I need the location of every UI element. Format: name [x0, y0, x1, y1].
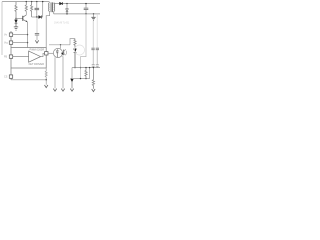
pin box 5: [45, 52, 48, 55]
resistor R4: [74, 39, 76, 49]
wire drop to opto: [60, 45, 62, 49]
resistor R6: [92, 68, 94, 89]
capacitor C2: [85, 4, 87, 8]
wire driver out: [41, 53, 45, 56]
node: [46, 79, 47, 80]
resistor R2: [25, 2, 27, 12]
wire collector up: [25, 11, 27, 15]
wire corner to R4: [70, 39, 75, 45]
capacitor C5: [36, 17, 38, 33]
node: [85, 67, 86, 68]
wire primary top: [48, 2, 50, 3]
wire emitter drop: [27, 22, 29, 48]
transistor Q2 opto: [63, 50, 65, 56]
ground: [70, 89, 73, 92]
ground: [61, 89, 64, 92]
capacitor C1: [36, 2, 38, 8]
node: [85, 78, 86, 79]
wire feedback drop: [81, 14, 87, 79]
wire lower output rail: [72, 67, 100, 69]
pin box 4: [9, 75, 12, 78]
wire pin rail lower: [10, 68, 12, 80]
node: [93, 13, 94, 14]
node: [66, 3, 67, 4]
diode D4 zener: [66, 4, 68, 9]
svg-text:FB: FB: [4, 56, 7, 59]
node: [89, 67, 90, 68]
node: [85, 3, 86, 4]
wire opto input: [48, 52, 53, 54]
ground: [53, 89, 56, 92]
node: [66, 13, 67, 14]
wire FB collector line: [49, 44, 70, 46]
diode D1: [15, 19, 17, 20]
ground: [45, 85, 48, 88]
capacitor C4: [96, 14, 98, 48]
transistor Q1: [22, 16, 24, 21]
svg-text:1N4148 TL431: 1N4148 TL431: [54, 23, 70, 25]
wire emitter drop: [62, 56, 65, 89]
node: [74, 67, 75, 68]
node: [60, 44, 61, 45]
resistor R3: [31, 2, 33, 17]
wire GND pin bottom: [11, 79, 46, 81]
node A: [15, 18, 16, 19]
node: [27, 42, 28, 43]
wire base: [16, 18, 23, 20]
resistor R1: [15, 2, 17, 19]
transformer T1: [49, 2, 55, 12]
node: [93, 67, 94, 68]
wire snubber return: [42, 2, 43, 17]
wire x72 drop: [71, 68, 73, 78]
diode D6: [71, 79, 74, 82]
wire pin1: [13, 34, 28, 36]
resistor R5: [85, 68, 87, 79]
wire y78.6 line: [72, 78, 90, 80]
wire left input rail: [1, 2, 3, 55]
diode D3: [60, 2, 63, 5]
wire pin3: [13, 56, 29, 58]
diode D2: [39, 16, 42, 19]
wire pin rail upper: [10, 31, 12, 48]
capacitor C3: [92, 21, 94, 48]
resistor Rs: [45, 68, 47, 85]
node: [36, 1, 37, 2]
wire primary bottom to drain: [46, 11, 49, 47]
node: [42, 1, 43, 2]
wire top input rail: [2, 1, 49, 3]
svg-text:FET DRIVER: FET DRIVER: [29, 62, 44, 66]
op-amp U1 driver: [29, 51, 41, 62]
wire pin2: [13, 42, 28, 44]
ground: [93, 14, 95, 17]
wire LED cathode drop: [54, 57, 56, 88]
node: [80, 78, 81, 79]
ground: [14, 27, 18, 30]
wire snubber node: [32, 16, 39, 18]
node: [36, 16, 37, 17]
pin box 3: [9, 55, 12, 58]
node: [31, 1, 32, 2]
optocoupler U2: [53, 48, 62, 57]
ground: [35, 40, 38, 43]
wire secondary top: [54, 2, 100, 5]
diode D5: [74, 49, 77, 52]
node: [26, 1, 27, 2]
wire x89.6: [89, 68, 91, 79]
svg-text:CS: CS: [4, 76, 8, 79]
wire secondary bottom rail: [54, 11, 100, 14]
pin box 1: [9, 33, 12, 36]
svg-text:PWM 0265R: PWM 0265R: [30, 47, 45, 51]
node: [27, 34, 28, 35]
node: [85, 13, 86, 14]
circle shunt ref faint: [75, 45, 85, 55]
diode LED in opto: [56, 49, 58, 51]
node: [80, 67, 81, 68]
pin box 2: [9, 41, 12, 44]
IC U1 box: [11, 48, 46, 69]
ground: [92, 89, 95, 92]
